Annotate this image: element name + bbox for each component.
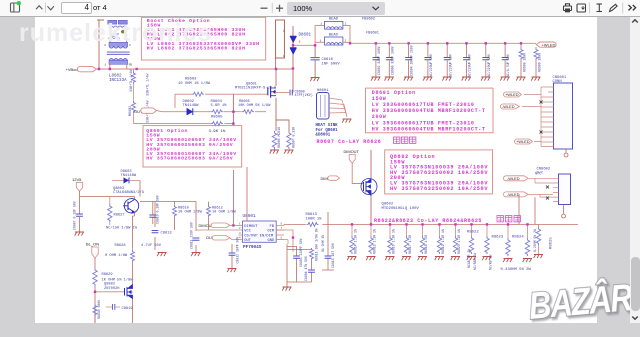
svg-text:C8812 10PF 50V: C8812 10PF 50V: [235, 237, 239, 264]
svg-text:R8615 1.3R 1%: R8615 1.3R 1%: [373, 229, 377, 254]
svg-text:C8807 0.1UF 50V: C8807 0.1UF 50V: [73, 201, 77, 230]
heat sink H8601: [317, 93, 330, 120]
diode D8601 top: [290, 36, 296, 43]
capacitor C8811: [193, 238, 200, 240]
resistor R8620: [451, 223, 461, 260]
svg-text:R8611 30K 1/8W 5%: R8611 30K 1/8W 5%: [314, 228, 318, 261]
svg-text:R8602: R8602: [129, 106, 133, 116]
junction xfmr left pin: [109, 68, 111, 70]
svg-text:7: 7: [281, 227, 283, 230]
CJK note 2: [497, 216, 520, 222]
ground C8616: [310, 78, 319, 82]
svg-text:1: 1: [105, 64, 107, 67]
X marks CN8602: [546, 186, 549, 200]
L8602 label: [109, 75, 127, 84]
wire Q8803 collector: [112, 180, 140, 199]
bead FB8601: [325, 37, 343, 45]
svg-text:HV 393G0060604TUB MBRF10200CT-: HV 393G0060604TUB MBRF10200CT-T: [372, 108, 486, 114]
svg-text:MTB211N10RFP-S-LB-G: MTB211N10RFP-S-LB-G: [235, 86, 276, 90]
resistor R8611: [310, 248, 314, 260]
wire D8601 mid to beads: [293, 44, 315, 46]
net -WLED b: [504, 192, 528, 197]
diode D8601 bottom: [290, 48, 296, 55]
ground R8606: [270, 150, 279, 154]
transistor Q8803: [123, 199, 139, 213]
svg-text:R8607 0.33R: R8607 0.33R: [292, 127, 296, 148]
ground cluster: [282, 287, 291, 291]
svg-text:Q8602: Q8602: [382, 202, 394, 206]
svg-text:91 OHM 1%: 91 OHM 1%: [321, 235, 325, 252]
capacitor C8812: [229, 244, 236, 268]
svg-text:8: 8: [281, 222, 283, 225]
snubber box: [276, 20, 285, 58]
capacitor C8819: [106, 304, 120, 310]
net 12V5: [72, 177, 83, 191]
junction D8601 anode: [292, 67, 294, 69]
svg-text:R8607 Co-LAY R8626: R8607 Co-LAY R8626: [317, 139, 382, 145]
I tool: [597, 4, 603, 12]
svg-text:HV 357G0763250602 10A/250V: HV 357G0763250602 10A/250V: [390, 186, 488, 192]
svg-text:4.7UF 50V: 4.7UF 50V: [141, 244, 162, 248]
svg-text:NC/220UF 50V: NC/220UF 50V: [429, 54, 433, 77]
resistor R8618: [418, 223, 428, 260]
svg-text:TN4148W: TN4148W: [183, 104, 200, 108]
wire mid horizontal: [140, 202, 209, 253]
diode D8601 leg: [292, 26, 294, 93]
svg-text:FB8601: FB8601: [366, 31, 379, 35]
resistor R8603: [192, 92, 204, 96]
svg-text:-WLED: -WLED: [502, 104, 515, 109]
svg-text:LV 393G0060617TUB FMET-23010: LV 393G0060617TUB FMET-23010: [372, 102, 475, 108]
svg-text:47PF(2KV): 47PF(2KV): [295, 93, 313, 98]
svg-text:R8624: R8624: [512, 236, 524, 240]
label D8603: [121, 170, 137, 178]
resistor R8614: [347, 223, 357, 260]
junction DIMOUT rail: [232, 224, 234, 226]
junction D8601 mid: [292, 44, 294, 46]
wire +VBoost rail: [97, 68, 294, 70]
svg-text:10 OHM 1/8W: 10 OHM 1/8W: [212, 210, 237, 215]
wire left rail: [97, 20, 104, 69]
svg-text:BAZÂR: BAZÂR: [527, 275, 634, 328]
ground R8607: [284, 150, 293, 154]
label R8605: [238, 100, 271, 108]
heat sink pins: [329, 98, 347, 117]
svg-text:-WLED: -WLED: [507, 192, 520, 197]
option box D8601: [366, 88, 494, 133]
resistor R8627: [108, 197, 112, 226]
printer icon: [564, 4, 572, 12]
wires CN8601 harness: [522, 87, 548, 147]
svg-text:R8608 100K: R8608 100K: [522, 53, 526, 72]
svg-text:3.9K 1%: 3.9K 1%: [209, 130, 226, 134]
resistor R8610: [173, 205, 177, 217]
svg-text:NC/220UF 50V: NC/220UF 50V: [468, 54, 472, 77]
junction VBoost-left: [98, 68, 100, 70]
svg-text:BEAD: BEAD: [329, 34, 339, 38]
capacitor bank C8602: [371, 42, 381, 81]
wires -WLED to CN8602: [528, 178, 553, 197]
capacitor C8815: [325, 256, 332, 258]
svg-text:2: 2: [239, 227, 241, 230]
X marks CN8601: [540, 101, 543, 134]
svg-text:HV 357G0600250603 9A/250V: HV 357G0600250603 9A/250V: [146, 156, 233, 162]
svg-text:0 OHM 1/8W: 0 OHM 1/8W: [105, 253, 128, 258]
ground C8812: [227, 269, 236, 273]
label R8613: [306, 213, 323, 221]
wire DIMOUT-IC: [230, 224, 239, 226]
resistor 8.2ohm: [534, 224, 543, 258]
junction BL gate: [94, 291, 96, 293]
mosfet Q8802: [125, 284, 133, 299]
svg-text:INC133A: INC133A: [109, 79, 127, 83]
resistor R8613: [306, 221, 323, 227]
label Q8803: [113, 187, 144, 195]
capacitor C8603: [462, 42, 472, 81]
svg-text:10K OHM 5% 1/8W: 10K OHM 5% 1/8W: [238, 103, 271, 108]
svg-text:5.6R 1%: 5.6R 1%: [211, 104, 228, 108]
svg-text:U8601: U8601: [243, 214, 257, 219]
svg-text:R8628: R8628: [115, 244, 126, 248]
svg-text:R8609 100K: R8609 100K: [537, 53, 541, 72]
svg-text:10 OHM 1% 1/8W: 10 OHM 1% 1/8W: [178, 81, 211, 86]
svg-text:NC/R8 2W: NC/R8 2W: [489, 255, 493, 270]
resistor R8628: [131, 248, 135, 284]
chevrons: [629, 5, 636, 10]
pin numbers beads: [320, 23, 347, 43]
resistor R8608: [516, 42, 526, 81]
svg-text:CS/OVP EN/DIM: CS/OVP EN/DIM: [244, 233, 273, 238]
connector CN8601: [548, 76, 573, 157]
svg-text:C8803 220PF 50V: C8803 220PF 50V: [299, 238, 303, 267]
capacitor C8606: [442, 42, 452, 81]
label Q8802: [104, 283, 120, 291]
svg-text:R8606 MCR18: R8606 MCR18: [277, 127, 281, 148]
svg-text:VCC: VCC: [244, 229, 251, 233]
svg-text:FB: FB: [270, 225, 275, 229]
net -WLED pin: [501, 104, 520, 109]
wire C8616 drop: [314, 45, 316, 77]
bead FB8602: [325, 21, 343, 29]
IC U8601: [239, 214, 285, 250]
svg-text:NC/4.7UF 50V: NC/4.7UF 50V: [506, 54, 510, 77]
connector CN8602: [553, 174, 571, 218]
svg-text:MTD2ON10GLQ 100V: MTD2ON10GLQ 100V: [382, 207, 420, 211]
svg-text:C8600 82UF 100V: C8600 82UF 100V: [390, 46, 394, 75]
wire gate R8603: [175, 94, 268, 108]
svg-text:R8620 1.3R 1%: R8620 1.3R 1%: [457, 229, 461, 254]
junction bead out: [349, 42, 351, 44]
wire Q8601 source: [276, 98, 289, 131]
svg-text:R8618 1.5R: R8618 1.5R: [424, 235, 428, 254]
junction 233-111: [232, 111, 234, 113]
svg-text:R8622&R8623 Co-LAY R8624&R8625: R8622&R8623 Co-LAY R8624&R8625: [374, 218, 482, 224]
svg-text:NC/220UF 50V: NC/220UF 50V: [448, 54, 452, 77]
svg-text:C8602 82UF 100V: C8602 82UF 100V: [377, 46, 381, 75]
junction xfmr right pin: [135, 68, 137, 70]
net BL_ON: [86, 241, 99, 258]
wire choke pins: [110, 39, 127, 43]
label D8602: [183, 100, 200, 108]
svg-text:C8604 100UF 250V: C8604 100UF 250V: [410, 45, 414, 76]
resistor R8609: [531, 47, 541, 81]
wire BL_ON down: [94, 258, 96, 268]
wire FB rail: [284, 224, 578, 225]
capacitor C8616: [311, 58, 320, 60]
resistor R8622: [482, 223, 492, 270]
resistor 33K upper: [132, 69, 136, 88]
svg-text:R8630 300K: R8630 300K: [97, 300, 101, 319]
capacitor C8608b: [500, 42, 510, 81]
net DIM: [321, 176, 340, 181]
junction 233-123: [232, 122, 234, 124]
wire bead column: [315, 25, 324, 45]
wire 3.9K net: [134, 123, 234, 125]
resistor R8606: [272, 131, 276, 150]
label HEAT SINK: [316, 124, 339, 138]
svg-text:1K OHM 5% 1/8W: 1K OHM 5% 1/8W: [102, 277, 134, 282]
svg-text:FB8602: FB8602: [362, 18, 375, 22]
svg-text:5: 5: [281, 237, 283, 240]
pencil: [610, 4, 618, 11]
svg-text:R8619 1.3R 1%: R8619 1.3R 1%: [441, 229, 445, 254]
capacitor C8600: [385, 42, 395, 81]
svg-text:-WLED: -WLED: [507, 176, 520, 181]
ground C8811: [191, 253, 200, 257]
label R8604: [211, 100, 228, 108]
svg-text:For Q8601: For Q8601: [316, 129, 339, 133]
svg-text:DIMOUT: DIMOUT: [344, 149, 360, 154]
wires -WLED risers: [519, 194, 535, 224]
wire bead1 out: [343, 25, 350, 43]
svg-text:BL_ON: BL_ON: [86, 241, 99, 246]
mosfet Q8601: [268, 86, 276, 97]
transformer pins: [110, 64, 127, 68]
capacitor C8804: [308, 270, 315, 272]
wire bead2 out rail +WLED: [343, 42, 536, 43]
svg-text:H8601: H8601: [317, 89, 329, 93]
net +WLED pin2: [515, 139, 533, 144]
wire OUT: [157, 111, 267, 112]
svg-text:33K+TL 1/4W: 33K+TL 1/4W: [146, 73, 151, 96]
resistor R8615: [366, 223, 376, 260]
svg-text:R8617 1.3R: R8617 1.3R: [408, 235, 412, 254]
capacitor C8605: [423, 42, 433, 81]
svg-text:R8623: R8623: [492, 236, 504, 240]
wire 12V5 down: [80, 191, 113, 232]
svg-text:GND: GND: [268, 239, 275, 243]
net DIMOUT mid: [344, 149, 360, 163]
capacitor C8607: [481, 42, 491, 81]
svg-text:N/C: N/C: [535, 172, 541, 177]
wire Q8802 source down: [132, 299, 134, 323]
svg-text:NC8B.2R 2W: NC8B.2R 2W: [467, 249, 471, 268]
wire Q8602 drain up: [370, 150, 372, 178]
net -WLED a: [504, 176, 528, 181]
svg-text:1NF 500V: 1NF 500V: [322, 62, 341, 66]
svg-text:DIMOUT: DIMOUT: [244, 225, 258, 229]
svg-text:DIM: DIM: [321, 176, 328, 181]
svg-text:D8601: D8601: [299, 33, 312, 37]
svg-text:NC/15K 1/8W 1%: NC/15K 1/8W 1%: [106, 225, 138, 230]
svg-text:R8616 1.3R 1%: R8616 1.3R 1%: [392, 229, 396, 254]
svg-text:DIM: DIM: [268, 229, 275, 233]
ground heat sink: [342, 119, 351, 123]
wire rail x233: [232, 94, 234, 126]
svg-text:R8629: R8629: [102, 273, 113, 277]
svg-text:+WLED: +WLED: [516, 139, 530, 144]
svg-text:D8601 Option: D8601 Option: [372, 90, 416, 96]
wire DIMOUT to gate: [352, 163, 363, 184]
junction DIM-GND: [292, 236, 294, 238]
svg-text:150W: 150W: [372, 96, 387, 102]
wire Q8601 drain: [275, 69, 277, 86]
resistor R8612: [207, 205, 211, 217]
svg-text:NC/R8B 2W: NC/R8B 2W: [473, 253, 477, 270]
svg-text:HV 393G0060604TUB MBRF10200CT-: HV 393G0060604TUB MBRF10200CT-T: [372, 126, 486, 132]
svg-text:C8813: C8813: [161, 232, 172, 236]
capacitor C8810: [149, 202, 156, 225]
svg-text:2N7002H: 2N7002H: [104, 287, 120, 291]
net OUT1: [134, 108, 157, 114]
net DIMOUT arrow: [199, 223, 230, 228]
svg-text:100R 1%: 100R 1%: [306, 217, 323, 221]
svg-text:3: 3: [239, 232, 241, 235]
svg-text:C8804 47N 50V: C8804 47N 50V: [304, 256, 308, 281]
net +VBoost: [66, 67, 97, 72]
svg-text:12V5: 12V5: [72, 177, 82, 182]
resistor R8629: [93, 268, 97, 323]
diode D8603: [112, 177, 140, 183]
svg-text:CTA1648WN3/2/G: CTA1648WN3/2/G: [113, 190, 144, 195]
svg-text:PF7904S: PF7904S: [243, 245, 262, 250]
text Q8601 Option: [146, 128, 236, 162]
resistor R8617: [402, 223, 412, 260]
wire rail x233 lower: [233, 167, 247, 225]
svg-text:C8815 18T 50V: C8815 18T 50V: [331, 243, 335, 268]
wire right-of-IC cluster: [287, 244, 312, 287]
wire VCC left: [196, 229, 239, 231]
capacitor C8813: [152, 231, 159, 233]
svg-text:OUT: OUT: [244, 239, 251, 243]
junction Q8601 drain: [275, 68, 277, 70]
save icon: [577, 4, 586, 12]
resistor R8604: [211, 110, 223, 114]
resistor R8624: [523, 223, 532, 262]
resistor R8619: [435, 223, 445, 260]
svg-text:R8625: R8625: [550, 237, 554, 249]
svg-text:8.2OHM 5% 2W: 8.2OHM 5% 2W: [533, 229, 537, 252]
capacitor C8609: [276, 90, 292, 96]
resistor R8616: [385, 223, 395, 260]
label Q8602: [382, 202, 420, 211]
resistor R8602: [132, 88, 136, 124]
wire Q8602 source down: [370, 196, 372, 224]
transformer L8602: [104, 42, 132, 66]
net +WLED pin: [504, 92, 522, 97]
svg-text:4: 4: [239, 237, 241, 240]
ground C8813: [157, 253, 166, 257]
label R8610: [178, 206, 203, 214]
svg-text:2: 2: [299, 41, 301, 44]
label Q8601: [235, 82, 276, 90]
wire OUT-IC: [230, 238, 239, 240]
wire left col mid: [322, 212, 334, 270]
svg-text:NC/220UF 50V: NC/220UF 50V: [487, 54, 491, 77]
option box Q8602: [385, 150, 493, 194]
svg-text:&D8601: &D8601: [316, 134, 331, 138]
svg-text:R8622: R8622: [467, 230, 479, 234]
net +WLED top: [536, 42, 556, 47]
label C8609: [295, 90, 313, 98]
svg-text:FB: FB: [129, 64, 133, 67]
svg-text:200W: 200W: [372, 114, 387, 120]
wire BL_ON to gate: [95, 291, 125, 293]
resistor R8630: [93, 302, 97, 323]
option box Boost Choke: [141, 17, 265, 60]
resistor R8605: [242, 110, 254, 114]
svg-text:+WLED: +WLED: [505, 92, 519, 97]
resistor 3.9K: [211, 122, 223, 126]
resistor R8607b: [287, 131, 291, 149]
svg-text:1: 1: [239, 222, 241, 225]
label R8603: [178, 78, 211, 86]
text Boost Choke Option: [147, 18, 260, 51]
resistor R8621: [467, 223, 477, 270]
svg-text:BEAD: BEAD: [329, 18, 339, 22]
svg-text:R8614 1.3R 1%: R8614 1.3R 1%: [354, 229, 358, 254]
svg-text:LV 393G0060617TUB FMET-23010: LV 393G0060617TUB FMET-23010: [372, 120, 475, 126]
svg-text:R8627: R8627: [114, 214, 125, 218]
svg-text:+WLED: +WLED: [542, 42, 556, 47]
resistor R8623: [503, 223, 512, 262]
wire Q8803 emitter down: [133, 212, 135, 248]
CJK note 1: [394, 137, 416, 143]
capacitor C8807: [76, 214, 83, 216]
svg-text:C8811 22UF 50V: C8811 22UF 50V: [190, 222, 194, 249]
svg-text:10 OHM 1/8W: 10 OHM 1/8W: [178, 210, 203, 215]
svg-text:R8605: R8605: [211, 116, 223, 120]
wire snubber to rail: [275, 58, 277, 69]
svg-text:C8810 0.1UF 50V: C8810 0.1UF 50V: [156, 195, 160, 224]
capacitor C8803: [293, 256, 300, 258]
wire DIM right: [276, 230, 293, 252]
label CN8602: [537, 167, 551, 175]
choke L8601 top: [104, 16, 128, 39]
svg-text:L8602: L8602: [109, 75, 122, 79]
option box Q8601: [143, 126, 242, 167]
svg-text:C8819: C8819: [122, 307, 133, 311]
pin labels D8601: [283, 30, 301, 58]
svg-text:CONN: CONN: [553, 80, 562, 84]
label C8616: [322, 58, 341, 66]
ground C8807: [75, 232, 84, 236]
junction C8616: [314, 44, 316, 46]
capacitor C8604: [404, 42, 414, 81]
label R8612: [212, 206, 237, 214]
text D8601 Option: [372, 90, 486, 133]
text Q8602 Option: [390, 154, 488, 192]
mosfet Q8602: [361, 178, 377, 196]
svg-text:HEAT SINK: HEAT SINK: [316, 124, 339, 128]
label R8629: [102, 273, 134, 283]
net OUT arrow: [206, 235, 230, 240]
diode D8602: [187, 108, 193, 115]
